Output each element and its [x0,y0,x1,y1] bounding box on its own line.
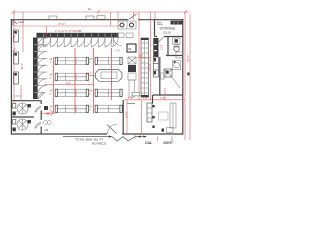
office cabinet NE [176,52,183,58]
wall top [11,19,128,21]
wall cabinet L2 [14,52,19,64]
red dim seg y57 [137,57,151,59]
restroom NE toilet [174,45,179,52]
entry door leaf [107,125,117,134]
dimension line right outer [189,14,191,140]
restroom SW outline [12,101,42,134]
red dim x165 [164,88,166,100]
svg-text:5'-0: 5'-0 [139,55,144,58]
wall stub office-backroom [152,95,154,104]
restroom fixture 1 [13,112,16,116]
corridor door leaf [38,93,44,99]
gondola row1 right [95,57,122,64]
svg-text:44'-6": 44'-6" [20,63,24,70]
box dark [128,65,136,72]
backroom island [159,112,169,120]
register counter boxes [118,21,136,29]
office door leaf [171,76,180,88]
door top leaf [129,14,137,20]
svg-text:5'-0": 5'-0" [128,97,133,100]
red tick bottom a [134,134,136,139]
wall left [10,19,12,135]
svg-text:STORAGE: STORAGE [160,27,177,31]
checkout run vertical [141,38,149,97]
red drops top [111,12,156,26]
backroom top stub [127,103,135,105]
tag box A [49,16,57,19]
svg-text:ML: ML [128,47,132,51]
svg-text:8'-0: 8'-0 [88,73,93,76]
turning circle 2 [17,119,28,130]
box X [128,57,136,64]
cooler doors horizontal [37,38,118,48]
red dim x139 [138,12,140,100]
cooler band vertical [33,38,38,100]
restroom SW door1 [35,107,41,113]
dimension line left inner [22,12,24,52]
backroom shelf strip [147,103,155,128]
equipment boxes lower [153,57,158,77]
restroom sink 1 [13,104,16,109]
gondola row3 right [95,89,122,96]
box tall [129,80,135,97]
svg-text:3'-4": 3'-4" [160,97,165,100]
tag box A0 [97,16,105,19]
restroom fixture 2 [13,128,16,132]
office left wall [159,57,161,95]
wall cabinet L1 [14,30,19,42]
turning circle 1 [17,103,28,114]
wall bottom [11,133,107,135]
svg-text:75'-0": 75'-0" [186,55,190,62]
red dim y100 [124,99,185,101]
stools [44,121,48,125]
dimension line right inner [184,12,186,140]
wall storage left [154,20,156,37]
entry arc [107,124,117,134]
corridor door arc [114,38,122,46]
sign box HDWL [127,44,136,52]
gondola row4 left [55,105,88,112]
svg-text:CAL: CAL [145,141,153,145]
counter box 2a [117,33,124,38]
red drop restroom [20,85,22,101]
floor sink box [173,61,181,70]
bottom dim line with break [63,135,147,141]
svg-text:[-16: [-16 [44,129,49,132]
svg-text:27'-0": 27'-0" [58,22,65,26]
wall storage bottom [155,36,184,38]
wall cabinet L3 [14,72,19,84]
red dim x150.5 [150,12,152,100]
counter box 2b [126,33,133,38]
backroom dark box [162,129,165,132]
left dim ticks [13,36,16,39]
restroom toilet 1 [28,104,31,107]
cooler doors vertical [38,38,48,99]
red tick bottom b [157,137,159,142]
equipment dark strip [153,38,158,57]
small dark box [44,106,48,110]
office bottom wall [153,94,183,96]
red dim x127 [126,100,128,134]
promo octagon row2 right [96,70,123,82]
svg-text:1-web: 1-web [18,21,25,24]
backroom west wall [122,100,124,134]
svg-text:100'0": 100'0" [163,141,174,145]
gondola row1 left [55,57,88,64]
cooler band horizontal [37,33,119,38]
red dim stub [42,112,56,115]
tag box C [132,92,140,96]
restroom NE sink [173,38,181,44]
svg-text:1'-6x1-6: 1'-6x1-6 [14,96,23,98]
red drop cooler [46,26,48,38]
wall right [182,19,184,135]
restroom sink 2 [13,120,16,125]
box plain [128,73,136,80]
svg-text:10'-0: 10'-0 [161,44,164,50]
elec panel [171,21,184,25]
tag box B [86,16,94,19]
svg-text:2'-6 .07' 1'-0" 5AX0B: 2'-6 .07' 1'-0" 5AX0B [55,29,82,33]
restroom NE wall [166,37,183,56]
backroom shelving [170,103,176,128]
dim line mid horizontal [44,84,93,86]
gondola row4 right [95,105,122,112]
backroom counter [167,128,174,133]
svg-text:12'x10': 12'x10' [163,31,172,35]
office desk [164,69,172,77]
red tick bottom c [171,137,173,142]
svg-text:10'-6": 10'-6" [124,111,128,118]
door top-left [13,20,17,25]
red dim x141.5 [141,100,143,134]
office small box [161,73,165,79]
dimension line left outer [13,12,15,103]
svg-text:NO PECO: NO PECO [92,142,107,146]
svg-text:22'-6": 22'-6" [147,63,151,70]
restroom SW door2 [35,123,41,129]
red overlay dims [54,48,112,114]
svg-text:8'-0": 8'-0" [66,82,71,85]
dimension line interior upper [11,25,122,27]
restroom toilet 2 [28,120,31,123]
storage door leaf [159,37,165,43]
dimension line top [12,11,190,14]
dim ticks above gondolas [54,48,112,114]
svg-text:1'-0": 1'-0" [143,97,148,100]
gondola row2 left [55,73,88,80]
gondola row3 left [55,89,88,96]
